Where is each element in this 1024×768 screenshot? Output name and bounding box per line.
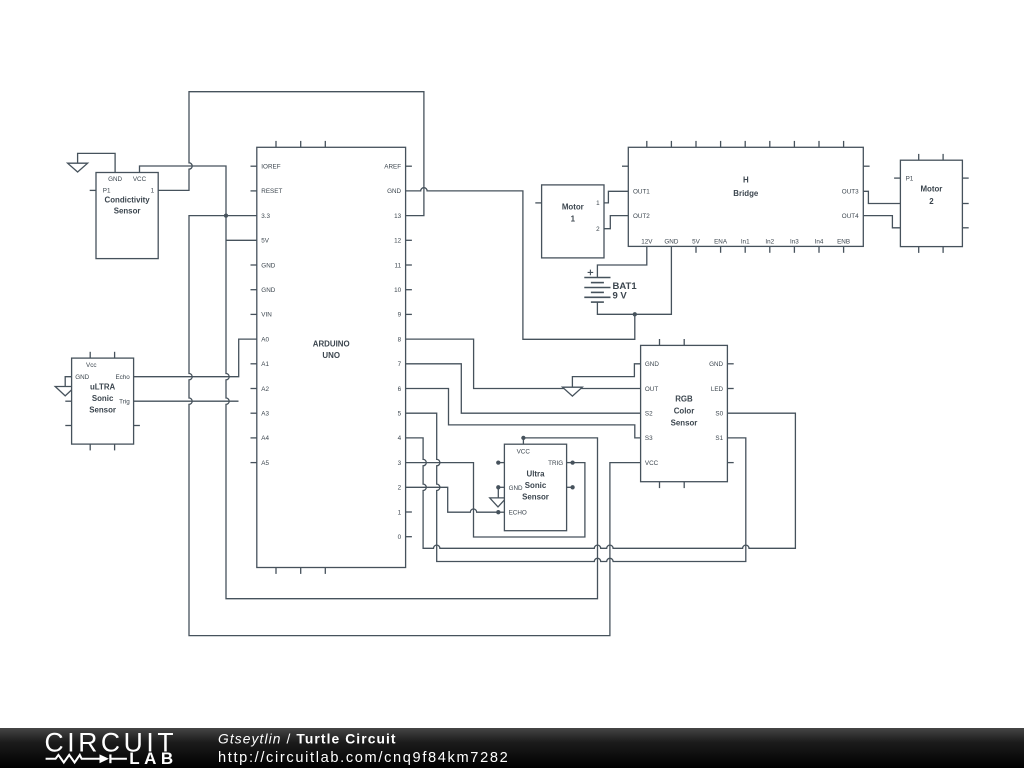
svg-text:In1: In1 <box>741 239 750 246</box>
svg-text:GND: GND <box>709 361 723 368</box>
svg-text:OUT3: OUT3 <box>842 189 859 196</box>
svg-text:5: 5 <box>398 411 402 418</box>
svg-text:VIN: VIN <box>261 312 272 319</box>
svg-text:Motor: Motor <box>920 185 942 194</box>
svg-text:ARDUINO: ARDUINO <box>313 339 350 348</box>
svg-text:H: H <box>743 175 749 184</box>
svg-text:A3: A3 <box>261 411 269 418</box>
svg-text:A1: A1 <box>261 361 269 368</box>
svg-text:LED: LED <box>711 386 724 393</box>
svg-text:AREF: AREF <box>384 164 401 171</box>
svg-text:GND: GND <box>108 176 122 183</box>
svg-text:Vcc: Vcc <box>86 362 97 369</box>
svg-text:Sensor: Sensor <box>671 418 698 427</box>
svg-text:GND: GND <box>645 361 659 368</box>
svg-text:GND: GND <box>75 374 89 381</box>
svg-text:Ultra: Ultra <box>527 469 546 478</box>
svg-text:GND: GND <box>509 485 523 492</box>
svg-text:Color: Color <box>674 407 695 416</box>
svg-text:GND: GND <box>387 188 401 195</box>
svg-text:9: 9 <box>398 312 402 319</box>
svg-text:1: 1 <box>596 200 600 207</box>
svg-text:OUT2: OUT2 <box>633 213 650 220</box>
svg-text:S3: S3 <box>645 435 653 442</box>
svg-text:A5: A5 <box>261 460 269 467</box>
svg-text:OUT1: OUT1 <box>633 189 650 196</box>
svg-text:1: 1 <box>571 215 576 224</box>
svg-text:Sonic: Sonic <box>92 394 114 403</box>
svg-text:2: 2 <box>596 226 600 233</box>
svg-text:12: 12 <box>394 238 402 245</box>
svg-text:RGB: RGB <box>675 394 693 403</box>
svg-text:Condictivity: Condictivity <box>105 196 151 205</box>
svg-text:13: 13 <box>394 213 402 220</box>
svg-text:Sensor: Sensor <box>522 493 549 502</box>
svg-text:12V: 12V <box>641 239 653 246</box>
svg-text:8: 8 <box>398 336 402 343</box>
svg-text:Sensor: Sensor <box>114 207 141 216</box>
svg-text:1: 1 <box>151 188 155 195</box>
svg-text:7: 7 <box>398 361 402 368</box>
svg-text:In4: In4 <box>815 239 824 246</box>
svg-text:0: 0 <box>398 534 402 541</box>
svg-text:Trig: Trig <box>119 399 130 406</box>
svg-text:GND: GND <box>261 262 275 269</box>
svg-text:Gtseytlin / Turtle Circuit: Gtseytlin / Turtle Circuit <box>218 732 397 747</box>
svg-text:3: 3 <box>398 460 402 467</box>
svg-text:OUT: OUT <box>645 386 658 393</box>
svg-text:Bridge: Bridge <box>733 189 759 198</box>
svg-text:9 V: 9 V <box>613 291 628 302</box>
svg-text:ENA: ENA <box>714 239 728 246</box>
svg-text:S2: S2 <box>645 411 653 418</box>
svg-text:Motor: Motor <box>562 202 584 211</box>
svg-text:Sensor: Sensor <box>89 406 116 415</box>
svg-text:In3: In3 <box>790 239 799 246</box>
svg-text:3.3: 3.3 <box>261 213 270 220</box>
svg-text:ECHO: ECHO <box>509 510 527 517</box>
svg-text:6: 6 <box>398 386 402 393</box>
svg-text:TRIG: TRIG <box>548 460 563 467</box>
svg-text:VCC: VCC <box>517 449 531 456</box>
svg-text:OUT4: OUT4 <box>842 213 859 220</box>
svg-text:P1: P1 <box>103 188 111 195</box>
svg-text:2: 2 <box>398 485 402 492</box>
svg-text:IOREF: IOREF <box>261 164 280 171</box>
svg-text:A4: A4 <box>261 435 269 442</box>
svg-text:ENB: ENB <box>837 239 850 246</box>
svg-text:5V: 5V <box>692 239 701 246</box>
svg-text:S0: S0 <box>715 411 723 418</box>
svg-text:11: 11 <box>395 262 402 269</box>
svg-text:VCC: VCC <box>133 176 147 183</box>
svg-text:Echo: Echo <box>115 374 130 381</box>
svg-text:In2: In2 <box>765 239 774 246</box>
svg-text:1: 1 <box>398 509 402 516</box>
svg-text:S1: S1 <box>715 435 723 442</box>
svg-text:P1: P1 <box>906 175 914 182</box>
svg-text:5V: 5V <box>261 238 270 245</box>
svg-text:http://circuitlab.com/cnq9f84k: http://circuitlab.com/cnq9f84km7282 <box>218 750 509 766</box>
svg-text:GND: GND <box>664 239 678 246</box>
svg-text:2: 2 <box>929 197 934 206</box>
svg-text:Sonic: Sonic <box>525 481 547 490</box>
svg-text:uLTRA: uLTRA <box>90 383 116 392</box>
svg-text:A0: A0 <box>261 336 269 343</box>
svg-text:RESET: RESET <box>261 188 282 195</box>
svg-text:UNO: UNO <box>322 351 340 360</box>
svg-text:GND: GND <box>261 287 275 294</box>
svg-text:4: 4 <box>398 435 402 442</box>
svg-text:10: 10 <box>394 287 402 294</box>
svg-text:LAB: LAB <box>129 749 177 768</box>
svg-text:A2: A2 <box>261 386 269 393</box>
svg-text:VCC: VCC <box>645 460 659 467</box>
